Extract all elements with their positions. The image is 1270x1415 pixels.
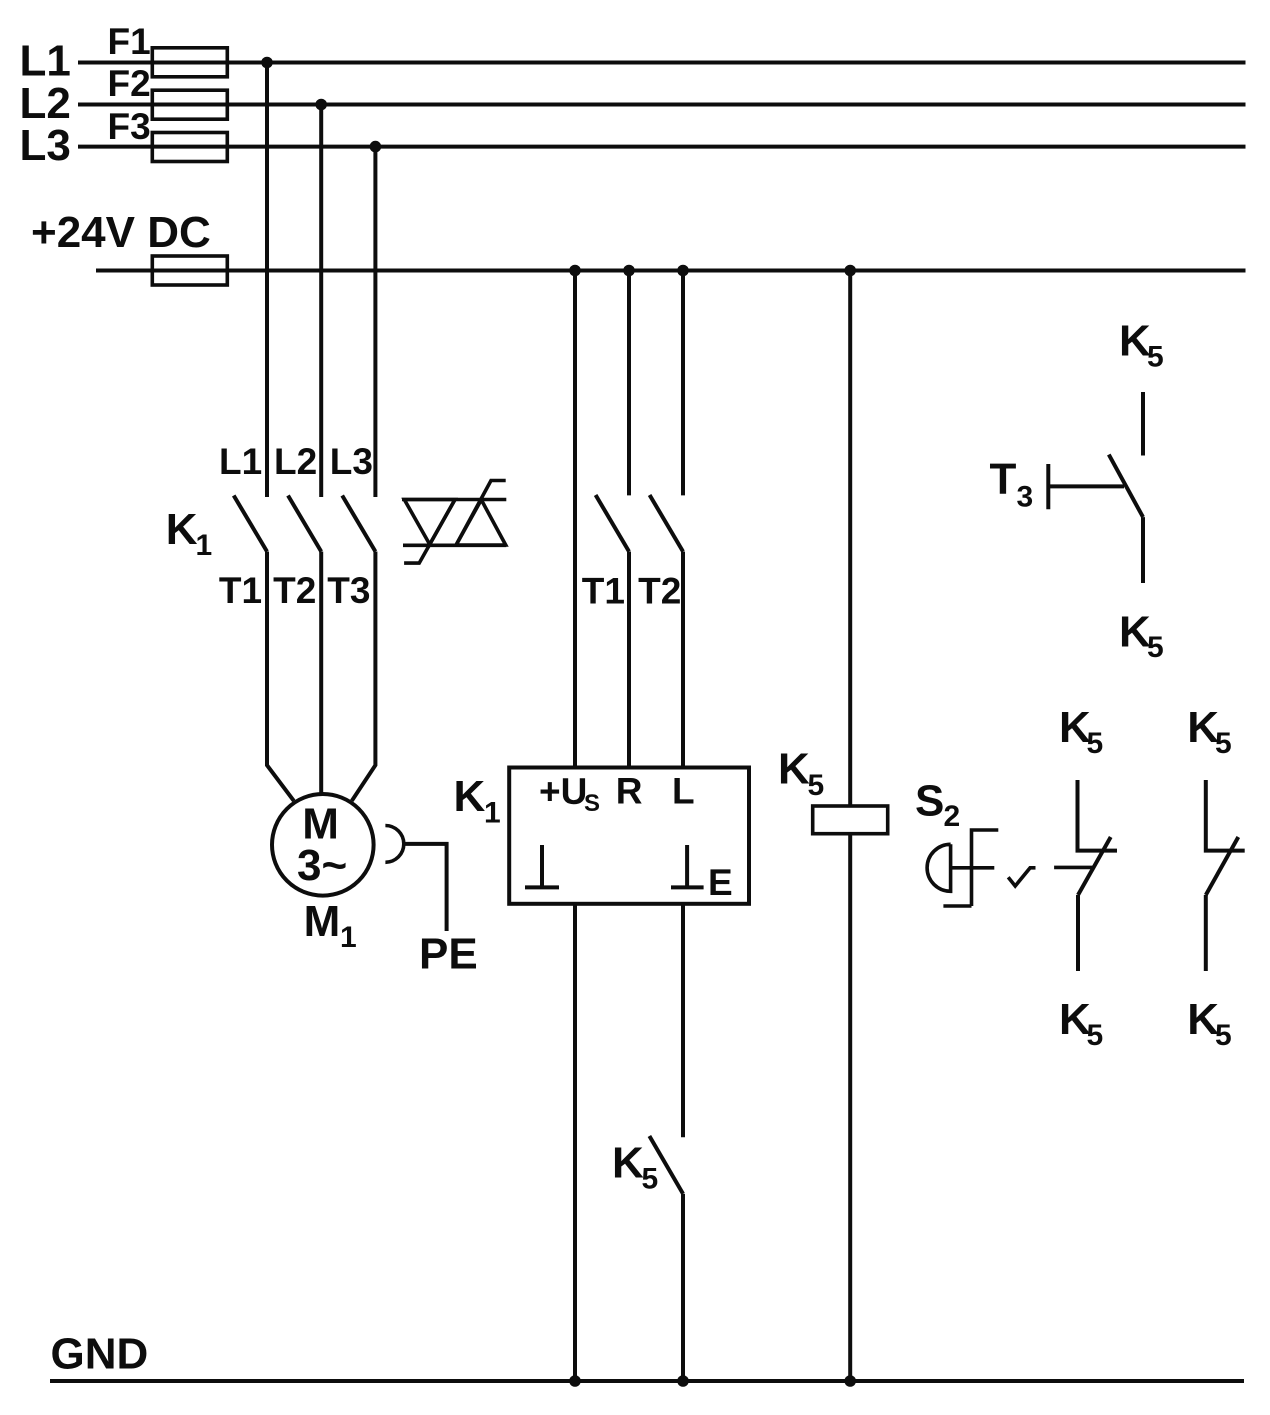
node L3-F3	[370, 141, 382, 153]
linkage to K5 contact	[1054, 866, 1094, 870]
fuse F1	[152, 48, 227, 77]
wire R lower	[627, 552, 631, 768]
contact K1 aux T1 blade	[596, 495, 629, 552]
node L1-F1	[261, 57, 273, 69]
node GND-2	[677, 1375, 689, 1387]
svg-text:PE: PE	[419, 929, 478, 978]
svg-text:2: 2	[944, 800, 961, 833]
svg-text:F1: F1	[108, 21, 151, 62]
svg-text:+24V DC: +24V DC	[31, 208, 211, 257]
wire R drop	[627, 271, 631, 496]
contact K5 NC right bottom wire	[1204, 895, 1208, 971]
timer contact K5 bottom wire	[1141, 517, 1145, 583]
wire T3 to motor	[352, 552, 376, 801]
contactor K1 pole 2 blade	[288, 496, 321, 552]
svg-text:F2: F2	[108, 63, 151, 104]
timer contact K5 top wire	[1141, 392, 1145, 456]
node GND-1	[569, 1375, 581, 1387]
motor M1 circle	[272, 794, 374, 896]
wire PE	[404, 844, 447, 931]
node GND-3	[844, 1375, 856, 1387]
svg-text:L3: L3	[20, 121, 71, 170]
svg-text:1: 1	[484, 796, 501, 829]
contact K5 NC left bottom wire	[1076, 895, 1080, 971]
S2 stem	[951, 866, 995, 870]
wire L2 bus	[78, 103, 1246, 107]
svg-text:K: K	[454, 772, 486, 821]
contact K5 blade	[649, 1136, 683, 1194]
wire L lower	[681, 552, 685, 768]
svg-text:5: 5	[808, 769, 825, 802]
softstart thyristor symbol	[402, 481, 506, 564]
svg-text:5: 5	[1215, 727, 1232, 760]
relay coil K5	[813, 806, 888, 834]
T3 actuator line	[1048, 484, 1124, 488]
svg-text:L1: L1	[219, 441, 262, 482]
svg-text:L3: L3	[330, 441, 373, 482]
svg-text:M: M	[304, 897, 341, 946]
svg-text:K: K	[778, 744, 810, 793]
svg-text:5: 5	[1147, 631, 1164, 664]
svg-text:1: 1	[340, 921, 357, 954]
svg-text:E: E	[708, 862, 733, 903]
contactor K1 pole 3 blade	[342, 496, 375, 552]
wire L1 bus	[78, 61, 1246, 65]
contact K5 NC right top wire	[1206, 780, 1245, 851]
node 24V-Us	[569, 265, 581, 277]
svg-text:GND: GND	[51, 1330, 149, 1379]
wire L3 bus	[78, 145, 1246, 149]
wire coil to GND	[848, 834, 852, 1381]
device K1 box	[509, 768, 749, 904]
svg-text:+U: +U	[539, 771, 587, 812]
svg-text:R: R	[616, 770, 643, 811]
timer contact K5 blade	[1109, 455, 1143, 517]
svg-text:3~: 3~	[297, 841, 347, 890]
svg-text:5: 5	[1215, 1019, 1232, 1052]
wire K5 coil drop	[848, 271, 852, 807]
wire +24V DC bus	[96, 269, 1246, 273]
wire box E output	[681, 904, 685, 1137]
PE terminal arc	[385, 826, 403, 863]
svg-text:S: S	[915, 777, 944, 826]
node L2-F2	[315, 99, 327, 111]
node 24V-R	[623, 265, 635, 277]
fuse F4 24V	[152, 256, 227, 285]
contact K5 NC left top wire	[1078, 780, 1118, 851]
contactor K1 pole 1 blade	[234, 496, 267, 552]
svg-text:K: K	[612, 1139, 644, 1188]
svg-text:T2: T2	[273, 570, 316, 611]
svg-text:K: K	[166, 505, 198, 554]
svg-text:S: S	[584, 790, 600, 817]
wire box to GND left	[573, 904, 577, 1381]
wire T2 to motor	[319, 552, 323, 795]
contact K5 NC left blade	[1078, 837, 1111, 895]
S2 latch linkage	[943, 830, 998, 906]
contact K5 NC right blade	[1206, 837, 1239, 895]
svg-text:5: 5	[642, 1163, 659, 1196]
T3 actuator bar	[1046, 464, 1050, 509]
svg-text:T1: T1	[582, 570, 625, 611]
svg-text:T2: T2	[638, 570, 681, 611]
pushbutton S2 actuator	[927, 844, 951, 891]
wire T1 to motor	[267, 552, 294, 801]
svg-text:5: 5	[1087, 727, 1104, 760]
wire L2 drop	[319, 105, 323, 498]
wire K5 contact to GND	[681, 1194, 685, 1381]
ground symbol left in box	[525, 845, 559, 887]
wire L1 drop	[265, 63, 269, 498]
wire L3 drop	[373, 147, 377, 497]
svg-text:F3: F3	[108, 106, 151, 147]
node 24V-L	[677, 265, 689, 277]
svg-text:L2: L2	[274, 441, 317, 482]
check mark	[1008, 868, 1035, 886]
svg-text:T1: T1	[219, 570, 262, 611]
svg-text:3: 3	[1017, 480, 1034, 513]
svg-text:T: T	[990, 455, 1017, 504]
fuse F3	[152, 133, 227, 162]
svg-text:5: 5	[1147, 340, 1164, 373]
wire +Us drop	[573, 271, 577, 768]
svg-text:T3: T3	[327, 570, 370, 611]
svg-text:L: L	[672, 770, 695, 811]
contact K1 aux T2 blade	[650, 495, 683, 552]
fuse F2	[152, 90, 227, 119]
svg-text:1: 1	[196, 529, 213, 562]
svg-text:5: 5	[1087, 1019, 1104, 1052]
ground symbol right in box	[671, 845, 704, 887]
node 24V-K5	[844, 265, 856, 277]
wire L drop	[681, 271, 685, 496]
wire GND bus	[50, 1379, 1244, 1383]
